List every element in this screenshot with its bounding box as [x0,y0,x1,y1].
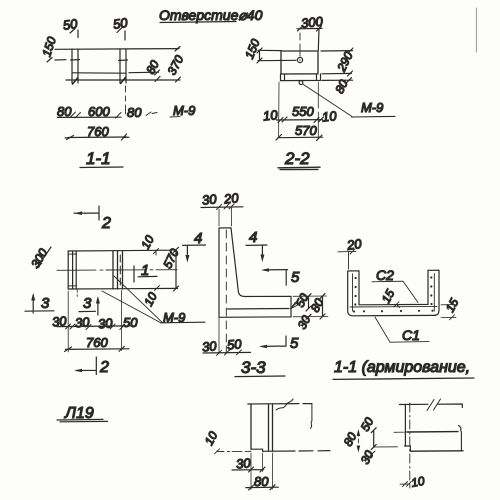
top edge line with break marks [399,404,462,408]
section mark 2 (bottom) [77,357,97,375]
tick marks at wall feet [73,78,126,85]
left top extension [258,49,281,51]
extension lines down for bottom dims [279,82,319,138]
extension lines to top of leg [219,208,232,226]
wall outer face [250,404,252,449]
svg-text:4: 4 [249,229,257,246]
top cut line [248,403,312,405]
wall inner lines [269,404,273,451]
svg-text:300: 300 [28,246,50,271]
slab right end with break [459,426,462,451]
svg-text:10: 10 [262,107,279,124]
svg-text:550: 550 [292,104,314,119]
section 2-2 bottom strip [281,74,321,81]
svg-text:80: 80 [143,58,162,77]
section 1-1 right wall [120,49,126,83]
horizontal centreline [57,269,177,272]
svg-text:15: 15 [379,287,398,306]
svg-text:2: 2 [99,359,109,376]
rebar section dots [353,276,434,312]
extension lines to left [374,432,406,447]
plan right wall band [113,251,123,289]
svg-text:760: 760 [86,335,108,350]
svg-text:30: 30 [358,448,377,467]
svg-text:3-3: 3-3 [241,358,266,377]
view: section 3-3 (middle-centre) [183,190,328,377]
extension below leg [218,318,220,354]
svg-text:2-2: 2-2 [284,149,310,168]
plan outline bottom edge + extension [68,287,177,290]
rebar line left leg [352,274,354,311]
svg-text:20: 20 [222,190,240,207]
leader from loop to M-9 [303,84,352,116]
svg-text:10: 10 [138,233,157,252]
section mark 3 (left) [25,295,54,313]
svg-text:1: 1 [141,262,149,279]
extension lines down from plan [68,291,121,353]
svg-text:5: 5 [290,335,299,352]
wall face [404,404,406,446]
svg-text:80: 80 [57,104,72,119]
svg-text:М-9: М-9 [173,103,195,118]
hidden axis line in leg [225,230,227,352]
view: plan (middle-left) [25,206,205,422]
svg-text:10: 10 [321,108,338,125]
wall axis dash-dot [409,403,411,488]
svg-text:570: 570 [295,123,317,138]
axis line to the left [217,450,252,452]
svg-text:2: 2 [101,215,111,232]
right end extensions [293,296,328,317]
slab top edge [407,431,458,433]
dim 80 right (slab) [129,71,159,74]
svg-text:Отверстие⌀40: Отверстие⌀40 [159,7,263,23]
section 2-2 body rectangle [281,51,318,74]
leader lines to M-9 [102,276,162,323]
ledge line in horizontal leg [228,308,290,311]
dim 80 with dashed arrow line [357,432,359,450]
rebar line bottom slab [350,305,437,308]
svg-text:30: 30 [74,314,90,330]
svg-text:С2: С2 [376,267,394,283]
svg-text:30: 30 [201,191,218,208]
section 1-1 top edge / extension line [55,48,179,51]
centerline extension below right wall [125,86,127,114]
U-channel outline [348,270,439,316]
section mark 5 (top) [264,270,288,286]
section mark 5 (bottom) [262,336,286,346]
svg-text:370: 370 [165,53,187,78]
svg-text:С1: С1 [402,327,420,343]
svg-text:3: 3 [83,295,92,312]
hidden line in right wall [119,255,121,285]
hole horizontal extension to left [258,59,296,61]
section mark 2 (top) [74,206,99,220]
detail: wall foot (bottom-centre) [202,399,330,490]
dim line for 80 600 80 [58,116,122,118]
scan artifact line (top right) [475,8,477,52]
hole vertical axis [299,33,301,56]
section mark 4 (right) [246,245,267,259]
taper level marks in walls [71,59,128,62]
svg-text:4: 4 [194,230,202,247]
svg-text:30: 30 [235,455,251,471]
slab bottom edge [410,450,463,452]
view: section 2-2 (top-right) [159,7,395,170]
leader tick to M-9 [146,112,157,116]
svg-text:1-1: 1-1 [86,149,111,168]
dim line 50 [371,428,376,450]
hole circle [297,57,302,62]
floor line with hidden continuation [263,450,330,453]
svg-text:10: 10 [410,474,426,490]
dim 15 (right, cover) [441,305,456,318]
svg-text:3: 3 [41,295,50,312]
3-3 L-profile outline [219,228,291,317]
section mark 4 (left) [183,245,206,260]
detail: slab edge (bottom-right) [341,399,463,490]
svg-text:10: 10 [202,429,221,448]
svg-text:30: 30 [295,313,314,332]
break zigzag on wall [276,399,293,410]
arrow to ledge end [291,302,299,309]
svg-text:80: 80 [127,105,142,120]
svg-text:30: 30 [97,315,113,331]
svg-text:30: 30 [201,338,217,354]
right edge with break [311,404,312,429]
svg-text:20: 20 [345,236,363,253]
lifting loop circle [299,81,303,85]
leader dim 300 (upper left) [37,247,52,269]
view: section 1-1 reinforcement (middle-right) [333,236,474,379]
svg-text:15: 15 [443,296,462,315]
section 1-1 left wall [72,49,78,83]
svg-text:150: 150 [39,35,59,59]
svg-text:50: 50 [123,315,138,330]
foot step [251,449,263,451]
view: section 1-1 (top-left) [39,15,195,168]
rebar line right leg [433,274,435,312]
svg-text:М-9: М-9 [361,100,383,115]
svg-text:50: 50 [62,16,79,33]
plan outline top edge + extension [68,249,172,252]
plan left wall band [68,251,76,289]
svg-text:5: 5 [291,269,300,286]
right extensions [321,51,353,81]
extension lines down [251,453,273,490]
section mark 3 (right) [79,299,98,315]
section 1-1 bottom slab [66,73,180,80]
svg-text:1-1 (армирование,: 1-1 (армирование, [334,359,470,376]
position label 1 [134,266,157,282]
foot step [405,446,411,451]
